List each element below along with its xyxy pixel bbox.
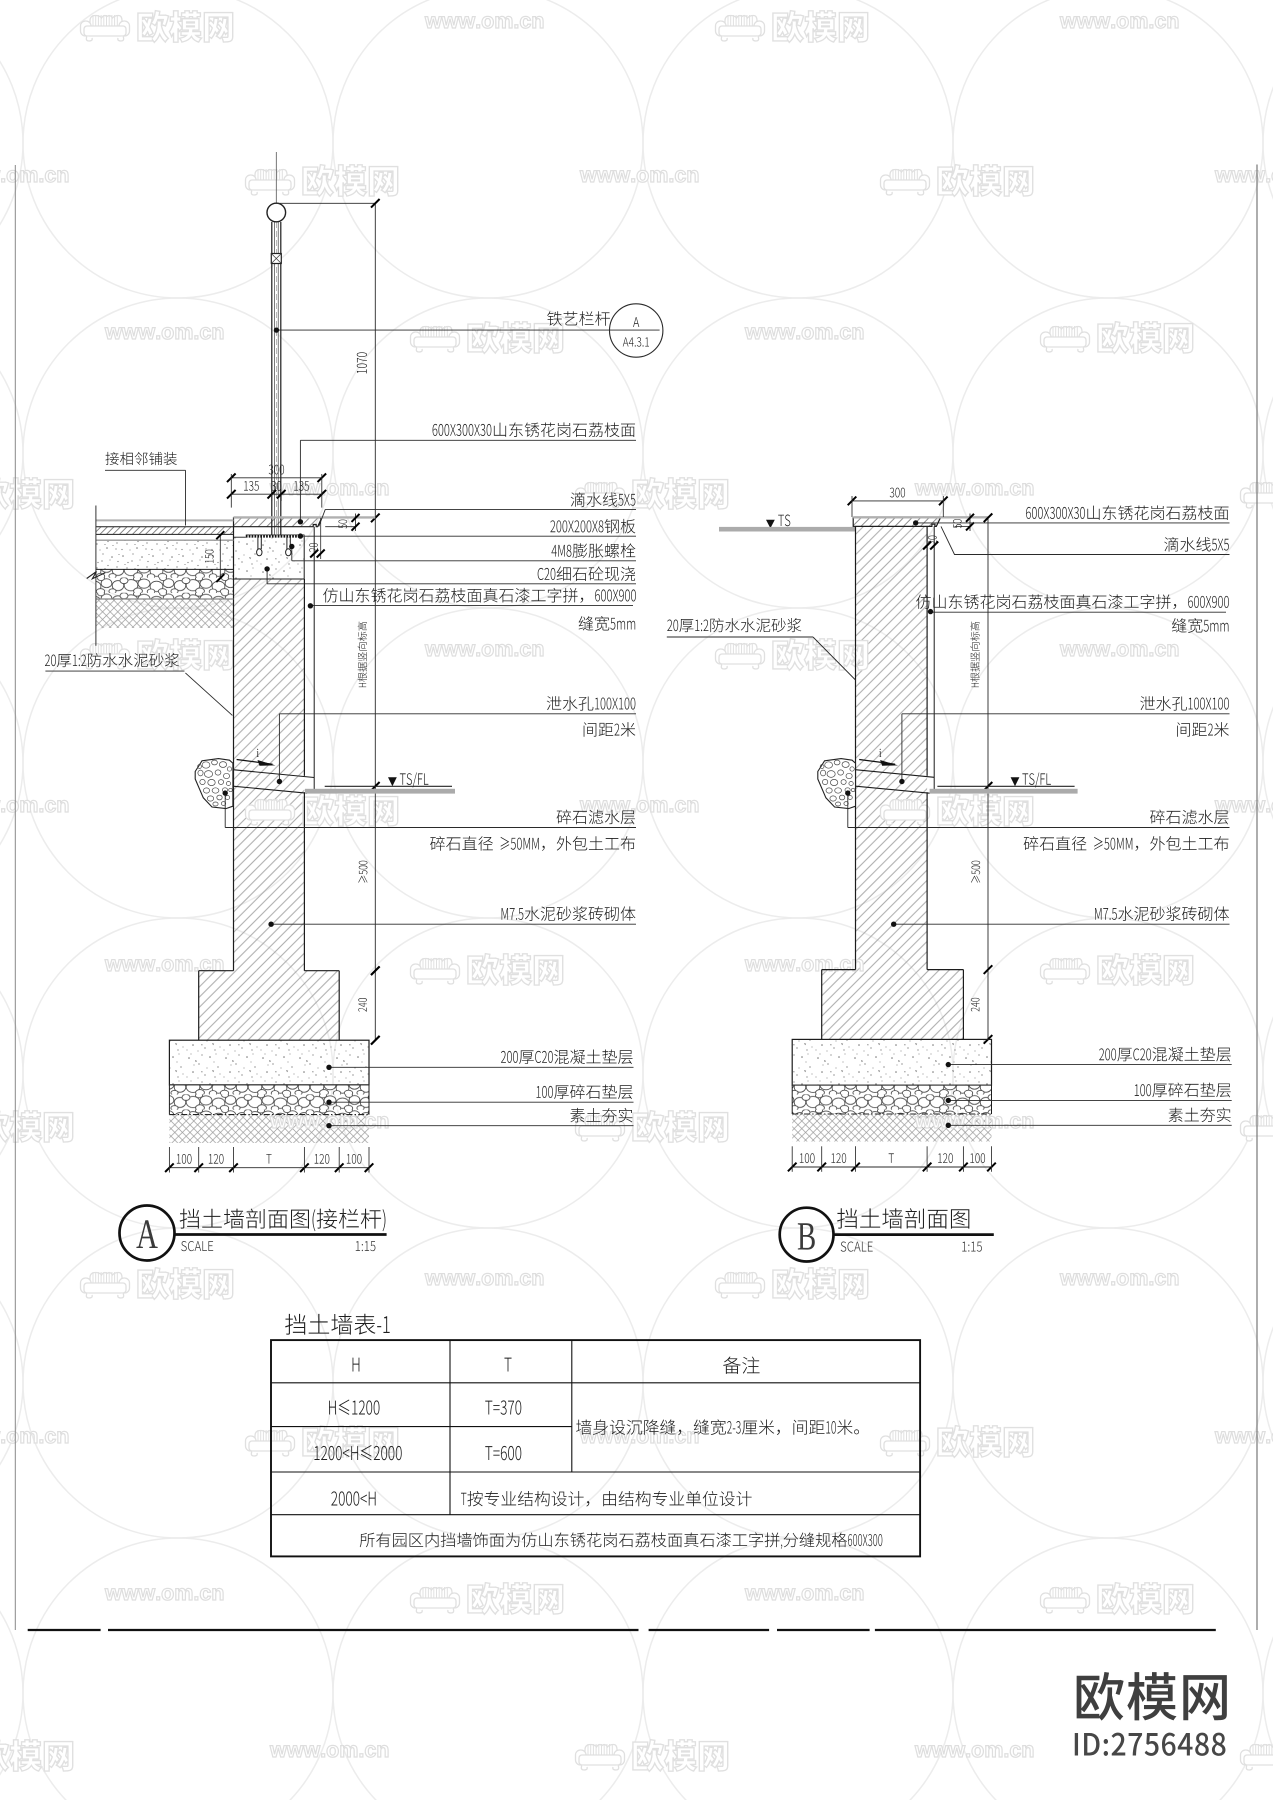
watermark sofa 欧模网 row10 bbox=[411, 1583, 563, 1615]
table cell 2000<H bbox=[331, 1491, 375, 1505]
TS/FL marker A bbox=[388, 777, 397, 786]
pavement level gray line bbox=[96, 519, 234, 521]
label 100厚碎石垫层 B bbox=[1135, 1083, 1231, 1098]
watermark sofa 欧模网 row3 bbox=[1241, 478, 1273, 510]
watermark sofa 欧模网 row11 bbox=[0, 1740, 73, 1772]
label 缝宽5mm A bbox=[579, 616, 636, 631]
table cell 墙身设沉降缝 bbox=[576, 1419, 859, 1435]
watermark sofa 欧模网 row8 bbox=[81, 1268, 233, 1300]
label 20厚1:2防水水泥砂浆 B bbox=[667, 618, 801, 632]
watermark sofa 欧模网 row4 bbox=[81, 639, 233, 671]
page border right bbox=[1256, 165, 1258, 1631]
watermark sofa 欧模网 row7 bbox=[576, 1111, 728, 1143]
pavement surface lines bbox=[96, 526, 234, 528]
label 碎石滤水层 A bbox=[557, 810, 635, 825]
label M7.5水泥砂浆砖砌体 A bbox=[502, 906, 636, 921]
watermark www.om.cn row2 bbox=[745, 327, 863, 339]
watermark www.om.cn row9 bbox=[1215, 1431, 1273, 1443]
watermark sofa 欧模网 row4 bbox=[716, 639, 868, 671]
anchor bolt left bbox=[257, 537, 259, 549]
label 滴水线5X5 B bbox=[1164, 537, 1229, 552]
watermark sofa 欧模网 row0 bbox=[716, 11, 868, 43]
dim 300 post A bbox=[231, 477, 321, 479]
watermark sofa 欧模网 row3 bbox=[576, 478, 728, 510]
watermark sofa 欧模网 row3 bbox=[0, 478, 73, 510]
table note row bbox=[360, 1532, 883, 1548]
site logo 欧模网 bbox=[1077, 1672, 1227, 1721]
watermark sofa 欧模网 row9 bbox=[881, 1426, 1033, 1458]
watermark www.om.cn row6 bbox=[745, 959, 863, 971]
slope arrow B bbox=[859, 760, 895, 765]
section B hatch fills bbox=[856, 526, 928, 969]
watermark www.om.cn row11 bbox=[915, 1745, 1033, 1757]
watermark sofa 欧模网 row7 bbox=[0, 1111, 73, 1143]
watermark sofa 欧模网 row1 bbox=[881, 165, 1033, 197]
table 挡土墙表-1 grid bbox=[271, 1340, 920, 1556]
watermark www.om.cn row1 bbox=[580, 170, 698, 182]
wall B right edge bbox=[926, 526, 928, 776]
watermark www.om.cn row5 bbox=[0, 800, 68, 812]
TS/FL marker B bbox=[1011, 777, 1020, 786]
watermark www.om.cn row10 bbox=[745, 1588, 863, 1600]
dim 50 drip B bbox=[969, 514, 971, 532]
anchor bolt right bbox=[286, 537, 288, 549]
concrete pad A outline bbox=[169, 1040, 369, 1085]
watermark www.om.cn row6 bbox=[105, 959, 223, 971]
title B text bbox=[837, 1208, 969, 1228]
table cell T=370 bbox=[485, 1400, 521, 1414]
watermark www.om.cn row8 bbox=[425, 1273, 543, 1285]
stone facing line A bbox=[313, 527, 315, 792]
watermark www.om.cn row5 bbox=[1215, 800, 1273, 812]
watermark www.om.cn row9 bbox=[580, 1431, 698, 1443]
dim 20 facing A bbox=[310, 550, 318, 558]
watermark www.om.cn row3 bbox=[915, 483, 1033, 495]
railing ball finial bbox=[267, 203, 286, 222]
table header 备注 bbox=[723, 1357, 759, 1374]
wall cap B bbox=[853, 518, 940, 527]
label 20厚1:2防水水泥砂浆 A bbox=[45, 653, 179, 667]
weep pipe A bbox=[232, 770, 315, 778]
gravel pocket B bbox=[818, 759, 856, 809]
dim 20 facing B bbox=[923, 542, 931, 550]
wall A left edge bbox=[233, 527, 235, 971]
watermark sofa 欧模网 row10 bbox=[1041, 1583, 1193, 1615]
label 素土夯实 B bbox=[1169, 1108, 1231, 1123]
dim text 1070 bbox=[357, 352, 367, 373]
railing post centerline bbox=[275, 152, 277, 203]
watermark www.om.cn row4 bbox=[1060, 644, 1178, 656]
label 碎石滤水层 B bbox=[1150, 810, 1228, 825]
label 100厚碎石垫层 A bbox=[537, 1084, 633, 1099]
watermark www.om.cn row11 bbox=[270, 1745, 388, 1757]
watermark sofa 欧模网 row5 bbox=[881, 795, 1033, 827]
dim chain B footing bbox=[792, 1166, 991, 1168]
label 缝宽5mm B bbox=[1172, 618, 1229, 633]
detail bubble A4.3.1 bbox=[610, 304, 663, 357]
table cell T按专业结构设计 bbox=[461, 1491, 752, 1507]
dim text H根据竖向标高 bbox=[358, 622, 367, 687]
label 接相邻铺装 bbox=[105, 452, 176, 465]
wall A right edge bbox=[303, 579, 305, 776]
dim 240 ticks A bbox=[371, 966, 380, 975]
concrete pad B outline bbox=[792, 1039, 991, 1085]
C20 block outline bbox=[234, 578, 305, 580]
watermark www.om.cn row7 bbox=[270, 1116, 388, 1128]
dim chain A footing bbox=[169, 1167, 369, 1169]
TS marker B bbox=[766, 520, 775, 528]
label 铁艺栏杆 bbox=[547, 311, 610, 326]
watermark www.om.cn row3 bbox=[270, 483, 388, 495]
title A text bbox=[180, 1209, 386, 1232]
post collar bbox=[271, 254, 281, 264]
dim 50 drip A bbox=[355, 514, 357, 532]
watermark sofa 欧模网 row2 bbox=[411, 322, 563, 354]
ground gray bar A bbox=[305, 789, 455, 794]
watermark www.om.cn row2 bbox=[105, 327, 223, 339]
table cell H<=1200 bbox=[329, 1400, 379, 1415]
dim 135 30 135 bbox=[231, 493, 321, 495]
label 600X300X30山东锈花岗石荔枝面 A bbox=[433, 422, 635, 437]
table header H bbox=[353, 1358, 360, 1372]
gravel layer A lines bbox=[169, 1084, 369, 1086]
label M7.5水泥砂浆砖砌体 B bbox=[1095, 906, 1229, 921]
bottom cut line bbox=[28, 1629, 101, 1631]
ground gray bar B left bbox=[719, 527, 856, 532]
table cell T=600 bbox=[485, 1446, 521, 1460]
dim text 240 A bbox=[358, 998, 367, 1012]
ground gray bar B right bbox=[930, 789, 1078, 794]
dim 150 bedding bbox=[219, 534, 221, 578]
section A hatch fills bbox=[234, 579, 305, 971]
watermark sofa 欧模网 row7 bbox=[1241, 1111, 1273, 1143]
dim 1070 vertical line bbox=[276, 202, 375, 204]
steel plate 200X200X8 bbox=[246, 535, 305, 538]
pavement left boundary bbox=[95, 506, 97, 646]
label 素土夯实 A bbox=[570, 1108, 632, 1123]
table cell 1200<H<=2000 bbox=[314, 1445, 401, 1460]
label 间距2米 A bbox=[584, 722, 636, 737]
stone facing line B bbox=[933, 526, 935, 791]
slope arrow A bbox=[237, 760, 273, 765]
watermark www.om.cn row10 bbox=[105, 1588, 223, 1600]
watermark www.om.cn row0 bbox=[425, 16, 543, 28]
watermark sofa 欧模网 row8 bbox=[716, 1268, 868, 1300]
label 碎石直径≥50MM 外包土工布 B bbox=[1024, 836, 1229, 851]
gravel layer B lines bbox=[792, 1084, 991, 1086]
watermark www.om.cn row9 bbox=[0, 1431, 68, 1443]
watermark sofa 欧模网 row6 bbox=[411, 954, 563, 986]
watermark sofa 欧模网 row6 bbox=[1041, 954, 1193, 986]
watermark sofa 欧模网 row2 bbox=[1041, 322, 1193, 354]
pavement break mark bbox=[87, 572, 106, 579]
cap top level gray line A bbox=[234, 516, 376, 518]
label 泄水孔100X100 A bbox=[547, 696, 636, 711]
watermark www.om.cn row8 bbox=[1060, 1273, 1178, 1285]
watermark sofa 欧模网 row9 bbox=[246, 1426, 398, 1458]
footing A base outline bbox=[199, 970, 234, 972]
watermark sofa 欧模网 row1 bbox=[246, 165, 398, 197]
watermark www.om.cn row1 bbox=[0, 170, 68, 182]
main dim line B bbox=[987, 518, 989, 1040]
footing B base outline bbox=[822, 969, 856, 971]
label 4M8膨胀螺栓 bbox=[551, 543, 635, 558]
watermark sofa 欧模网 row11 bbox=[1241, 1740, 1273, 1772]
title B bubble bbox=[780, 1208, 834, 1262]
label 间距2米 B bbox=[1177, 722, 1229, 737]
label 200厚C20混凝土垫层 B bbox=[1099, 1047, 1231, 1062]
label 仿山东锈花岗石荔枝面真石漆工字拼 600X900 B bbox=[916, 594, 1229, 609]
label 滴水线5X5 A bbox=[571, 492, 636, 507]
site logo ID bbox=[1075, 1733, 1226, 1756]
dim 300 B bbox=[852, 500, 943, 502]
cap top level gray line B bbox=[853, 516, 988, 518]
watermark sofa 欧模网 row0 bbox=[81, 11, 233, 43]
dim text >=500 bbox=[358, 861, 367, 883]
watermark sofa 欧模网 row5 bbox=[246, 795, 398, 827]
wall B left edge bbox=[855, 526, 857, 969]
table header T bbox=[504, 1358, 511, 1372]
title A bubble bbox=[120, 1206, 175, 1261]
label C20细石砼现浇 bbox=[538, 566, 635, 581]
label 碎石直径≥50MM 外包土工布 A bbox=[430, 836, 635, 851]
watermark www.om.cn row7 bbox=[915, 1116, 1033, 1128]
watermark www.om.cn row0 bbox=[1060, 16, 1178, 28]
page border left bbox=[14, 165, 16, 1630]
label 200X200X8钢板 bbox=[550, 519, 635, 534]
watermark www.om.cn row4 bbox=[425, 644, 543, 656]
wall cap A bbox=[234, 518, 322, 527]
label 仿山东锈花岗石荔枝面真石漆工字拼 600X900 A bbox=[323, 588, 636, 603]
watermark sofa 欧模网 row11 bbox=[576, 1740, 728, 1772]
watermark www.om.cn row1 bbox=[1215, 170, 1273, 182]
weep pipe B bbox=[854, 770, 934, 778]
table title 挡土墙表-1 bbox=[285, 1314, 390, 1335]
label 600X300X30山东锈花岗石荔枝面 B bbox=[1026, 505, 1228, 520]
railing post bbox=[271, 222, 273, 535]
watermark www.om.cn row5 bbox=[580, 800, 698, 812]
gravel pocket A bbox=[195, 759, 233, 809]
label 200厚C20混凝土垫层 A bbox=[501, 1049, 633, 1064]
label 泄水孔100X100 B bbox=[1140, 696, 1229, 711]
